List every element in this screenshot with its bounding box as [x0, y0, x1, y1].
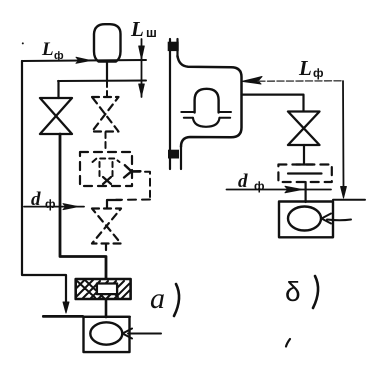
valve V4 (solid gate valve): [288, 112, 320, 146]
arrow df right-pointing: [285, 186, 302, 192]
wire: pump top line extended right: [333, 199, 365, 201]
stray dot top-left: [22, 42, 24, 44]
pump P2 impeller: [288, 207, 321, 231]
svg-text:L: L: [298, 56, 312, 80]
wire: right dim vertical: [342, 81, 345, 188]
svg-text:ф: ф: [254, 179, 265, 193]
flange lower: [168, 150, 179, 159]
svg-text:L: L: [130, 17, 144, 41]
valve V2 (dashed gate valve): [92, 97, 119, 132]
arrow Lsh upper: [139, 46, 145, 59]
valve V3 (dashed gate valve lower): [92, 209, 121, 244]
arrow down at pump level: [341, 187, 347, 199]
pump P1 box: [84, 317, 130, 352]
wire: pump top line extended left: [43, 316, 130, 318]
arrow into tank on header: [76, 57, 91, 63]
wire: vessel outlet to valve V4: [242, 95, 304, 111]
orifice device (hatched block): [76, 279, 131, 299]
wire: stem into pump P2: [305, 182, 307, 202]
pipe wall left: [169, 39, 171, 169]
pump P1 impeller: [90, 322, 122, 344]
tank (condensate pot): [94, 24, 121, 61]
wire: stem below V3: [105, 244, 107, 250]
float (inverted U): [195, 89, 219, 113]
wire: branch down to valve V1: [57, 81, 59, 98]
flange upper: [168, 42, 179, 51]
pump P2 box: [279, 202, 333, 238]
wire: stem below tank: [106, 62, 108, 81]
check symbol (bird-foot): [124, 165, 140, 177]
svg-text:ш: ш: [146, 25, 157, 40]
arrow df right-pointing: [63, 204, 78, 210]
svg-text:ф: ф: [313, 66, 324, 80]
pipe wall right upper: [176, 39, 178, 57]
wire: dashed stem to valve V2: [106, 81, 108, 96]
filter F2 (dashed box with plate): [278, 165, 331, 183]
svg-text:L: L: [41, 39, 54, 60]
wire: top header line y=61: [22, 60, 146, 61]
extension dashed box: [133, 172, 150, 197]
bowl curve: [193, 118, 220, 127]
wire: dashed stem V2 to dashed box: [105, 132, 107, 152]
level line upper: [181, 111, 231, 113]
svg-text:ф: ф: [54, 50, 64, 62]
arrow Lsh lower: [139, 84, 145, 96]
svg-text:δ: δ: [285, 276, 301, 307]
wire: second header line y=81: [58, 80, 146, 83]
svg-text:ф: ф: [45, 197, 56, 211]
level line lower: [184, 117, 230, 119]
trap vessel body: [178, 56, 242, 147]
wire: pump suction level line: [43, 315, 83, 317]
wire: stem below V4: [303, 145, 305, 165]
valve V1 (solid gate valve): [40, 98, 72, 134]
inner pot symbol (dashed): [93, 159, 120, 178]
dashed box (bypass unit): [80, 152, 132, 186]
dimension line Lf right: arrow into vessel: [242, 77, 262, 85]
pipe wall right lower: [180, 146, 182, 169]
svg-text:a: a: [150, 282, 165, 315]
wire: solid corner into valve V3: [107, 200, 121, 208]
wire: left rail from top line down and over to drain arrow: [22, 61, 66, 306]
cross mark x: [103, 177, 111, 184]
dimension line df with arrow: [24, 206, 84, 208]
stray comma mark: [286, 339, 290, 347]
wire: stem into pump: [105, 299, 108, 317]
dimension line Lsh: [141, 39, 143, 97]
pump P2 outlet arrow: [322, 214, 352, 224]
wire: thick pipe from V1 down and right to orifice: [60, 134, 106, 278]
pump P1 outlet arrow: [123, 329, 162, 339]
arrow drain down: [63, 302, 69, 313]
dimension line df right: [227, 189, 332, 191]
